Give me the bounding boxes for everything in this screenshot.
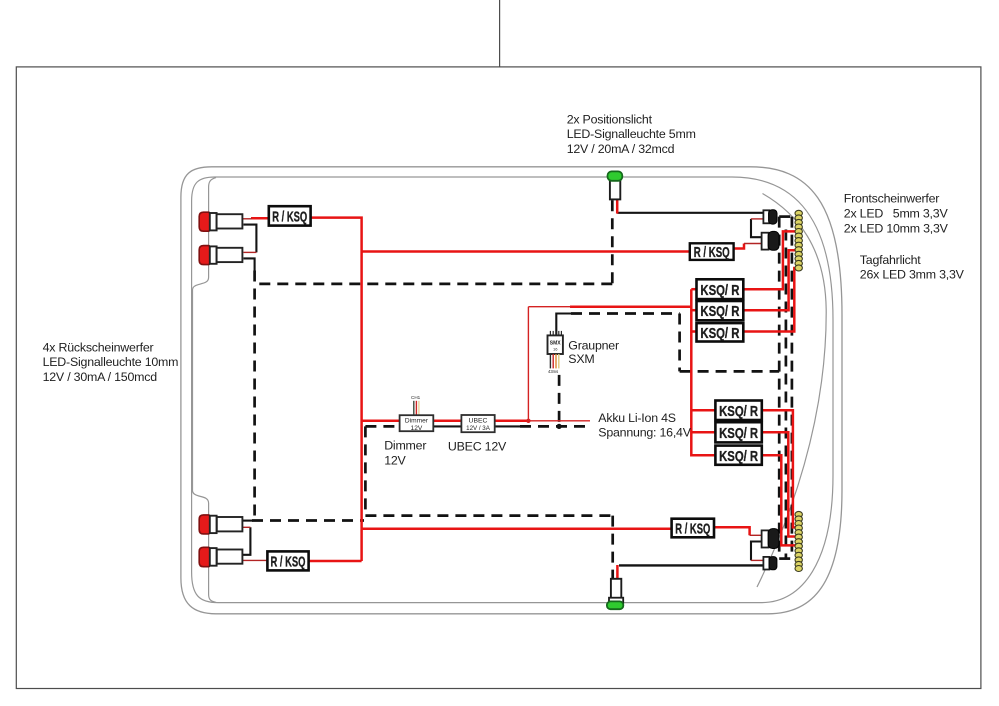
receiver pins top	[550, 331, 561, 336]
svg-text:16: 16	[553, 347, 558, 352]
wire red thin: bottom 5mm anode	[751, 559, 764, 561]
driver box KSQ/R 4	[715, 401, 761, 421]
LED front 10mm bottom	[762, 529, 779, 549]
label: rueckscheinwerfer	[43, 341, 179, 384]
wire red: stub KSQ/R 2	[691, 309, 696, 312]
svg-text:KSQ/ R: KSQ/ R	[700, 326, 739, 342]
wire red: feed to KSQ/R bus	[570, 305, 691, 308]
label: frontscheinwerfer	[844, 192, 949, 236]
svg-text:Graupner: Graupner	[568, 338, 619, 352]
wire dashed: right bus v3	[791, 217, 794, 559]
wire red: stub KSQ/R 5	[691, 431, 715, 434]
wire red: R/KSQ2 out	[733, 244, 744, 249]
label: positionslicht	[567, 113, 696, 156]
LED rear-left 3	[199, 515, 242, 534]
car body outer outline	[181, 167, 842, 614]
svg-text:26x LED 3mm 3,3V: 26x LED 3mm 3,3V	[860, 268, 965, 282]
dimmer box	[400, 415, 434, 432]
wire red: ubec out	[495, 420, 529, 423]
svg-text:12V / 30mA / 150mcd: 12V / 30mA / 150mcd	[43, 370, 158, 384]
wire red: branch to R/KSQ4	[362, 528, 672, 531]
LED front 5mm top	[763, 210, 777, 224]
svg-text:KSQ/ R: KSQ/ R	[719, 404, 758, 420]
wire dashed: receiver signal to right bus	[680, 370, 780, 373]
car cabin left contour line	[193, 178, 217, 603]
wire: dimmer-ubec return link	[433, 425, 461, 427]
car windshield arc	[757, 194, 826, 588]
label: akku	[598, 411, 691, 440]
svg-text:R / KSQ: R / KSQ	[694, 245, 730, 261]
svg-text:KSQ/ R: KSQ/ R	[719, 449, 758, 465]
svg-text:2x LED 10mm 3,3V: 2x LED 10mm 3,3V	[844, 222, 949, 236]
svg-text:LED-Signalleuchte 5mm: LED-Signalleuchte 5mm	[567, 127, 696, 141]
svg-text:12V: 12V	[411, 425, 423, 432]
svg-text:2x Positionslicht: 2x Positionslicht	[567, 113, 653, 127]
svg-text:12V / 3A: 12V / 3A	[466, 425, 491, 432]
car body inner outline	[192, 177, 833, 603]
wire dashed: top position light down	[611, 200, 614, 284]
label: tagfahrlicht	[860, 253, 965, 282]
wire red: KSQ/R left bus vertical	[691, 289, 715, 455]
LED position light bottom	[607, 579, 623, 609]
wire red thin: LED3 anode	[241, 526, 250, 528]
svg-text:KSQ/ R: KSQ/ R	[700, 304, 739, 320]
driver box KSQ/R 3	[697, 323, 744, 342]
receiver servo wires	[550, 354, 558, 368]
wire red thin: battery feed riser	[527, 307, 529, 421]
wire red thin: bottom 10mm anode	[750, 534, 762, 536]
wire: rear-left LED3 cathode stub	[242, 520, 253, 522]
svg-text:Akku Li-Ion 4S: Akku Li-Ion 4S	[598, 411, 676, 425]
label: dimmer	[384, 438, 426, 467]
wire red: branch to dimmer	[362, 420, 400, 423]
LED front 5mm bottom	[763, 557, 776, 570]
svg-text:R / KSQ: R / KSQ	[271, 554, 306, 570]
wire: front 10mm to 5mm series link bottom	[751, 542, 762, 561]
wire red thin: LED4 anode	[241, 559, 268, 561]
svg-text:Tagfahrlicht: Tagfahrlicht	[860, 253, 921, 267]
svg-text:Dimmer: Dimmer	[384, 438, 426, 452]
wire dashed: ubec-return vertical	[364, 426, 367, 515]
wire red thin: battery plus lead	[528, 420, 590, 422]
label: graupner	[568, 338, 619, 366]
wire dashed: left vertical	[253, 271, 256, 521]
LED front 10mm top	[762, 231, 779, 250]
driver box KSQ/R 1	[697, 279, 744, 299]
svg-text:UBEC: UBEC	[469, 418, 488, 425]
wire red thin: battery feed top	[528, 306, 571, 308]
svg-text:Dimmer: Dimmer	[405, 418, 429, 425]
wire dashed: receiver signal vertical	[678, 314, 681, 372]
driver box KSQ/R 5	[715, 422, 761, 442]
LED rear-left 1	[199, 212, 242, 231]
wire red: KSQ/R4 out to bottom coil	[761, 410, 795, 527]
svg-text:UBEC 12V: UBEC 12V	[448, 439, 507, 453]
LED strip coil bottom	[795, 511, 802, 571]
svg-text:SXM: SXM	[568, 352, 594, 366]
svg-text:4x Rückscheinwerfer: 4x Rückscheinwerfer	[43, 341, 154, 355]
wire dashed: upper horizontal to left	[255, 283, 613, 286]
svg-text:LED-Signalleuchte 10mm: LED-Signalleuchte 10mm	[43, 355, 179, 369]
wire red: KSQ/R3 out to coil	[743, 268, 796, 332]
wire red: stub KSQ/R 3	[691, 330, 696, 333]
LED strip coil top	[795, 210, 802, 271]
wire: rear-left LED2 cathode down	[244, 258, 255, 271]
wire red: dimmer to ubec	[433, 420, 461, 423]
wire dashed: receiver signal horizontal	[571, 312, 680, 315]
wire dashed: right bus v2	[785, 230, 788, 559]
svg-text:R / KSQ: R / KSQ	[675, 521, 710, 537]
wire: front 5mm to 10mm series link top	[751, 219, 762, 237]
wire: bottom 5mm LED to bottom position light	[619, 564, 764, 566]
wire red: branch to R/KSQ2	[362, 250, 690, 253]
wire: top position light to front 5mm LED	[617, 212, 763, 214]
wire red: R/KSQ3 out up	[308, 560, 361, 563]
wire dashed: lower horizontal to position light	[365, 514, 612, 517]
wire dashed: receiver power drop	[558, 375, 561, 427]
LED rear-left 4	[199, 547, 242, 566]
wire red: stub KSQ/R 4	[691, 409, 715, 412]
dimmer connector wires	[414, 401, 419, 415]
wire dashed: bottom position light drop	[611, 516, 614, 579]
wire red: KSQ/R2 out to coil	[743, 250, 795, 310]
frame tick top center	[499, 0, 501, 67]
wire red thin: front 10mm anode	[744, 243, 762, 245]
wire red: top position light stub	[616, 199, 619, 213]
driver box R/KSQ 2	[690, 243, 734, 261]
svg-text:12V: 12V	[384, 454, 406, 468]
svg-text:Spannung: 16,4V: Spannung: 16,4V	[598, 425, 691, 439]
svg-text:R / KSQ: R / KSQ	[272, 209, 307, 225]
wire red: KSQ/R5 out to bottom coil	[761, 432, 795, 536]
wire dashed: lower-left horizontal	[252, 519, 364, 522]
svg-text:KSQ/ R: KSQ/ R	[700, 283, 739, 299]
wire: receiver lead solid	[556, 314, 572, 336]
driver box R/KSQ 4	[672, 519, 714, 538]
driver box R/KSQ 3	[267, 551, 308, 570]
wire red: KSQ/R1 out to coil top	[743, 231, 795, 289]
wire: rear-left LED3/LED4 series link	[242, 527, 250, 555]
junction dot: battery minus node	[557, 424, 562, 429]
driver box KSQ/R 6	[715, 446, 761, 465]
wire red: KSQ/R6 out to bottom coil	[761, 455, 795, 545]
wire dashed: right bus v1	[778, 217, 781, 559]
wire dashed: right bus bottom connector	[779, 557, 793, 560]
wire red: stub KSQ/R 1	[691, 288, 696, 291]
wire dashed: battery minus lead	[520, 425, 590, 428]
junction dot: battery plus node	[526, 419, 530, 423]
LED rear-left 2	[199, 246, 242, 265]
svg-text:12V / 20mA / 32mcd: 12V / 20mA / 32mcd	[567, 142, 675, 156]
driver box KSQ/R 2	[697, 301, 744, 320]
svg-text:2x LED 5mm 3,3V: 2x LED 5mm 3,3V	[844, 207, 949, 221]
driver box R/KSQ 1	[269, 206, 311, 225]
ubec box	[461, 415, 494, 432]
svg-text:KSQ/ R: KSQ/ R	[719, 426, 758, 442]
wire red thin: LED1 anode	[243, 218, 253, 220]
wire red: LED1 to R/KSQ1	[251, 217, 270, 220]
wire dashed: right bus top connector	[779, 215, 795, 218]
wire: rear-left LED1 cathode to LED2 anode	[244, 225, 257, 253]
wire dashed: left of dimmer	[365, 425, 399, 428]
wire red: R/KSQ4 out	[714, 527, 750, 535]
wire red: R/KSQ1 out, main left bus	[310, 218, 362, 561]
svg-text:43ms: 43ms	[548, 369, 558, 374]
wire red thin: LED2 anode	[244, 251, 257, 253]
label: ubec	[448, 439, 507, 453]
wire: ubec return out	[495, 425, 522, 427]
svg-text:Frontscheinwerfer: Frontscheinwerfer	[844, 192, 940, 206]
wire red: bottom position light stub	[616, 565, 619, 580]
svg-text:CH1: CH1	[411, 395, 421, 400]
wire red thin: front 5mm anode	[751, 218, 764, 220]
LED position light top	[608, 171, 623, 199]
receiver Graupner SXM body	[548, 335, 563, 354]
